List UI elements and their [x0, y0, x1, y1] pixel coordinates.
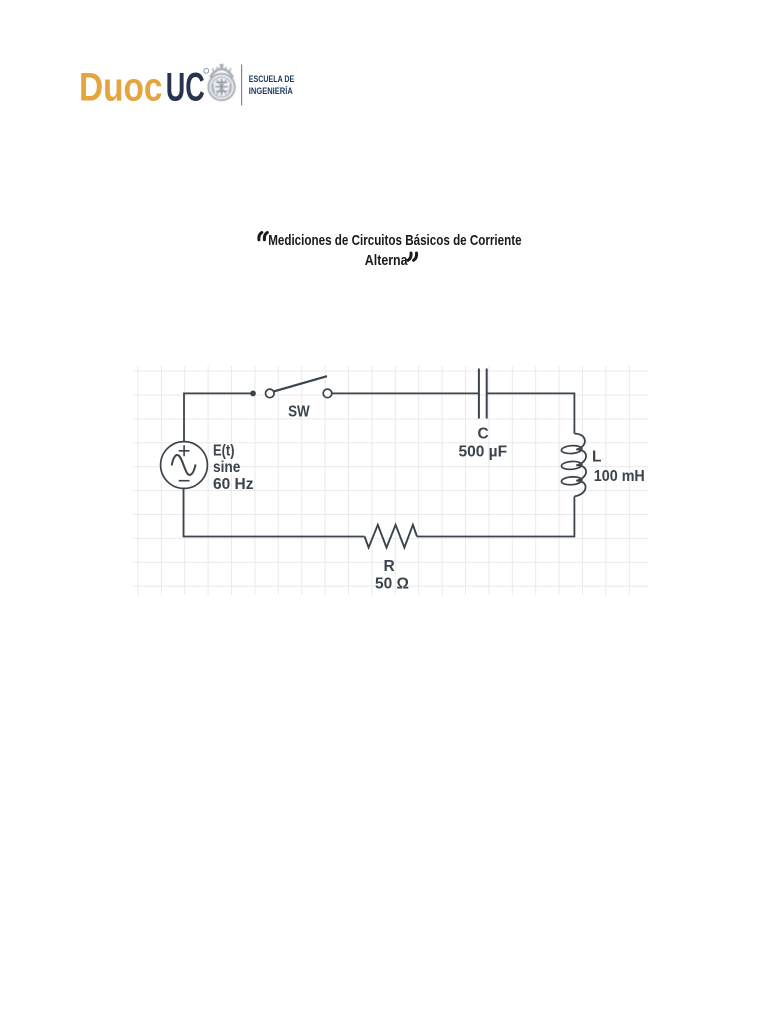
- svg-text:C: C: [478, 426, 489, 443]
- svg-text:60 Hz: 60 Hz: [213, 476, 254, 493]
- switch SW lever: [274, 376, 327, 391]
- source E circle: [161, 442, 208, 489]
- source E sine symbol: [172, 455, 196, 475]
- resistor R zigzag: [365, 525, 417, 548]
- wire capacitor to top-right corner down to inductor: [488, 393, 575, 433]
- wire switch to capacitor: [332, 392, 478, 394]
- svg-text:500 µF: 500 µF: [459, 444, 508, 461]
- svg-text:UC: UC: [166, 66, 205, 110]
- logo crest seal: [208, 65, 234, 100]
- svg-text:SW: SW: [288, 403, 310, 420]
- title closing quote: [408, 253, 416, 260]
- junction node dot: [250, 391, 256, 397]
- wire top-left: source top to switch: [184, 393, 252, 441]
- switch SW throw terminal: [323, 389, 332, 398]
- logo registered trademark symbol: [204, 68, 209, 73]
- svg-text:50 Ω: 50 Ω: [375, 575, 409, 592]
- svg-text:Alterna: Alterna: [365, 252, 408, 269]
- capacitor C left plate: [478, 369, 480, 419]
- title opening quote: [259, 233, 267, 240]
- capacitor C right plate: [486, 369, 488, 419]
- svg-text:INGENIERÍA: INGENIERÍA: [249, 86, 293, 96]
- svg-text:100 mH: 100 mH: [594, 468, 645, 485]
- svg-text:Mediciones de Circuitos Básico: Mediciones de Circuitos Básicos de Corri…: [268, 232, 521, 249]
- inductor L left loops: [561, 445, 582, 485]
- svg-text:Duoc: Duoc: [79, 66, 163, 110]
- svg-text:R: R: [384, 558, 395, 575]
- wire inductor bottom to bottom-right corner to resistor: [417, 496, 574, 536]
- inductor L coil bumps: [574, 434, 586, 497]
- svg-text:E(t): E(t): [213, 442, 235, 459]
- source E minus sign: [179, 480, 190, 482]
- svg-text:L: L: [592, 449, 601, 466]
- svg-text:ESCUELA DE: ESCUELA DE: [249, 74, 294, 84]
- source E plus sign: [179, 445, 190, 456]
- svg-text:sine: sine: [213, 459, 241, 476]
- logo divider line: [241, 65, 243, 106]
- wire resistor to bottom-left corner up to source bottom: [184, 488, 365, 536]
- switch SW pole terminal: [266, 389, 275, 398]
